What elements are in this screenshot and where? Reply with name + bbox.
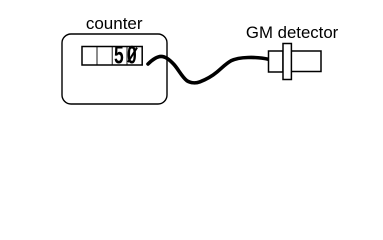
svg-text:counter: counter	[86, 14, 143, 33]
svg-text:GM detector: GM detector	[246, 23, 339, 42]
svg-text:5: 5	[114, 42, 124, 70]
